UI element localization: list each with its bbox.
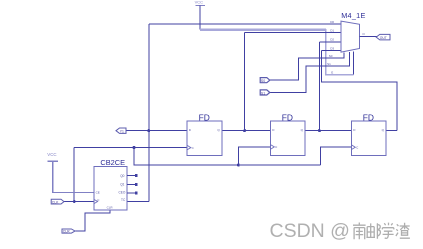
svg-text:C: C: [356, 145, 359, 149]
svg-text:C: C: [275, 145, 278, 149]
svg-text:CB2CE: CB2CE: [100, 158, 125, 167]
wire CEO stub: [127, 192, 135, 194]
node junction TC/D0: [147, 129, 150, 132]
svg-text:CLK: CLK: [52, 200, 59, 204]
wire net D2 (FD2.Q): [305, 42, 352, 131]
wire Q0 stub: [127, 175, 135, 177]
svg-text:FD: FD: [363, 113, 374, 123]
node junction FD1.Q: [243, 129, 246, 132]
power VCC (left, drives CB2CE CE): [47, 152, 94, 193]
flip-flop FD2: [271, 113, 306, 156]
svg-text:FD: FD: [199, 113, 210, 123]
svg-text:S1: S1: [261, 91, 265, 95]
wire net D0 (TC / FD1.D / input terminal): [126, 24, 341, 201]
node junction clock at C pin: [73, 200, 76, 203]
svg-text:CLR: CLR: [63, 230, 70, 234]
node junction clock rail drop: [133, 146, 136, 149]
node junction FD2.Q: [318, 129, 321, 132]
svg-text:Q: Q: [217, 128, 220, 132]
input terminal S1: [260, 90, 270, 96]
wire net D1 (FD1.Q): [222, 33, 341, 131]
input terminal Y (on TC net): [116, 128, 126, 134]
svg-text:D3: D3: [330, 47, 334, 51]
svg-text:C: C: [97, 198, 100, 202]
output terminal F: [376, 34, 390, 40]
svg-text:D: D: [272, 128, 275, 132]
svg-text:VCC: VCC: [47, 152, 56, 157]
svg-text:D: D: [189, 128, 192, 132]
svg-text:Q: Q: [382, 128, 385, 132]
svg-text:D0: D0: [330, 20, 334, 24]
svg-text:E: E: [331, 71, 333, 75]
flip-flop FD3: [352, 113, 387, 156]
svg-text:S1: S1: [327, 62, 331, 66]
input terminal CLR: [62, 229, 75, 234]
input terminal S0: [260, 78, 270, 84]
svg-text:CEO: CEO: [119, 190, 126, 194]
svg-text:D1: D1: [330, 29, 334, 33]
svg-text:TC: TC: [121, 198, 126, 202]
svg-text:D2: D2: [330, 38, 334, 42]
svg-text:S0: S0: [329, 54, 333, 58]
multiplexer U1 M4_1E: [327, 11, 365, 75]
flip-flop FD1: [187, 113, 222, 156]
svg-text:Y1: Y1: [120, 130, 124, 134]
node hanging square CEO: [135, 192, 138, 195]
svg-text:CLR: CLR: [107, 205, 114, 209]
watermark CSDN: [270, 220, 350, 242]
svg-text:D: D: [353, 128, 356, 132]
wire net S0: [270, 53, 344, 81]
watermark hanzi 南邮学渣: [353, 223, 410, 240]
svg-text:C: C: [192, 146, 195, 150]
svg-text:S0: S0: [261, 79, 265, 83]
svg-text:CE: CE: [96, 190, 100, 194]
node hanging square Q0: [135, 174, 138, 177]
svg-text:Q: Q: [301, 128, 304, 132]
wire net S1: [270, 52, 350, 93]
svg-text:Q1: Q1: [120, 182, 124, 186]
node junction clock rail FD2: [237, 164, 240, 167]
wire net D3 (FD3.Q loop): [321, 51, 397, 131]
wire mux output: [360, 36, 378, 38]
power VCC (top, drives mux E): [195, 0, 205, 29]
wire Q1 stub: [127, 184, 135, 186]
wire CLR net: [75, 210, 110, 231]
svg-text:VCC: VCC: [195, 0, 204, 5]
wire VCC to mux E (highlighted net): [200, 29, 354, 75]
input terminal CLK: [51, 199, 64, 204]
counter CB2CE: [94, 158, 127, 210]
svg-text:M4_1E: M4_1E: [341, 11, 365, 20]
svg-text:O: O: [362, 32, 365, 36]
wire clock net: [64, 147, 352, 202]
svg-text:FD: FD: [282, 113, 293, 123]
node hanging square Q1: [135, 183, 138, 186]
svg-text:Q0: Q0: [120, 174, 124, 178]
svg-text:CSDN @: CSDN @: [270, 220, 350, 242]
svg-text:OUT: OUT: [380, 36, 387, 40]
